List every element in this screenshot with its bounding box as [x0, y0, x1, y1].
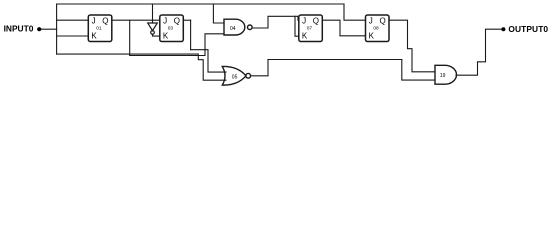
- wire U1.Q lane B to gate04 lower: [130, 34, 224, 56]
- svg-text:01: 01: [96, 26, 102, 32]
- svg-text:J: J: [163, 16, 167, 25]
- svg-text:K: K: [369, 32, 375, 41]
- svg-text:19: 19: [440, 73, 446, 79]
- svg-text:04: 04: [230, 26, 236, 32]
- node input terminal: [37, 27, 41, 31]
- wire input vertical distribution: [56, 4, 58, 54]
- flip-flop U7 box: [299, 15, 323, 42]
- svg-text:J: J: [92, 16, 96, 25]
- wire input lane A: [57, 54, 226, 80]
- svg-text:Q: Q: [313, 16, 319, 25]
- svg-text:Q: Q: [174, 16, 180, 25]
- svg-text:J: J: [302, 16, 306, 25]
- wire gate04 out branch to U7.K: [295, 16, 299, 36]
- wire inverter feed from bus: [152, 4, 154, 23]
- svg-text:K: K: [163, 32, 169, 41]
- wire K input of U1: [57, 35, 89, 37]
- flip-flop U1 labels: [91, 16, 108, 40]
- wire long lane to gate19 lower: [402, 60, 435, 81]
- wire U3.Q to gate04 area: [183, 19, 190, 21]
- wire U1.Q to U3.J: [112, 19, 160, 21]
- wire U7.Q to U8.K: [322, 20, 365, 36]
- svg-text:05: 05: [232, 74, 238, 80]
- svg-text:Q: Q: [380, 16, 386, 25]
- wire input stub: [41, 28, 57, 30]
- svg-text:OUTPUT0: OUTPUT0: [508, 24, 548, 34]
- flip-flop U1 box: [88, 15, 112, 42]
- wire gate05 out up to long lane: [251, 60, 268, 76]
- and gate 19: [435, 65, 456, 84]
- wire bus to gate04 upper: [213, 4, 224, 23]
- wire U8.Q to gate19 upper: [389, 20, 435, 72]
- wire bus to U8.J: [344, 4, 366, 20]
- wire gate04 out to U7: [252, 16, 299, 28]
- wire top bus: [57, 3, 344, 5]
- wire J input of U1: [57, 19, 89, 21]
- nor gate 05: [222, 66, 250, 85]
- flip-flop U8 box: [366, 15, 390, 42]
- wire inverter out to U3.K: [153, 34, 160, 36]
- inverter before U3.K: [148, 23, 158, 34]
- wire gate19 out to output: [456, 29, 502, 75]
- flip-flop U7 labels: [302, 16, 319, 40]
- flip-flop U3 box: [160, 15, 184, 42]
- svg-text:07: 07: [307, 26, 313, 32]
- wire lane C to gate05 upper: [191, 50, 226, 72]
- svg-text:08: 08: [373, 26, 379, 32]
- flip-flop U3 labels: [163, 16, 180, 40]
- svg-text:K: K: [302, 32, 308, 41]
- svg-text:J: J: [369, 16, 373, 25]
- svg-text:K: K: [91, 32, 97, 41]
- flip-flop U8 labels: [369, 16, 386, 40]
- svg-text:03: 03: [168, 26, 174, 32]
- wire U3.Q down branch: [190, 20, 192, 50]
- svg-text:INPUT0: INPUT0: [4, 23, 34, 33]
- nand gate 04: [224, 19, 252, 35]
- wire U1.Q down branch: [129, 20, 131, 55]
- node output terminal: [501, 27, 505, 31]
- svg-text:Q: Q: [102, 16, 108, 25]
- wire long lane y59.5: [268, 59, 402, 61]
